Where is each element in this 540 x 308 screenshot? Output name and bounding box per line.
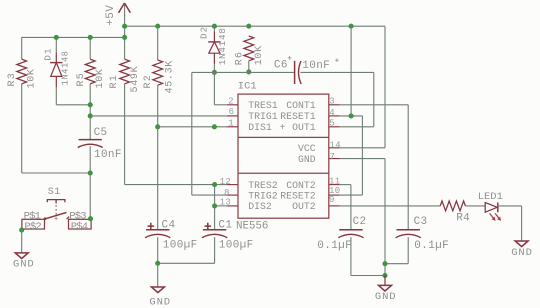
node R2/DIS1/C4 — [155, 124, 160, 129]
wire TRIG2 drop — [191, 72, 193, 195]
IC1 right pin numbers — [329, 96, 341, 204]
svg-text:10nF: 10nF — [302, 60, 330, 72]
svg-text:11: 11 — [329, 176, 341, 186]
svg-text:1N4148: 1N4148 — [217, 27, 228, 65]
wire CONT2 net — [340, 184, 351, 186]
svg-text:R1: R1 — [109, 74, 120, 88]
capacitor C5 10nF — [78, 127, 122, 161]
wire D1 to R5/C5 node — [56, 104, 90, 106]
wire GND column — [384, 159, 386, 276]
svg-text:C1: C1 — [218, 219, 232, 231]
svg-text:12: 12 — [220, 177, 232, 187]
wire C6 right — [300, 71, 373, 73]
node rail-R6 — [246, 24, 251, 29]
svg-text:6: 6 — [229, 107, 235, 117]
wire VCC net — [340, 147, 385, 149]
svg-text:LED1: LED1 — [478, 191, 503, 203]
node mid ground junction — [155, 261, 160, 266]
svg-text:100µF: 100µF — [163, 240, 198, 252]
IC1 left pin numbers — [220, 96, 235, 207]
wire C5 bottom — [89, 146, 91, 219]
svg-text:C6: C6 — [274, 59, 288, 71]
svg-text:DIS2: DIS2 — [248, 201, 272, 212]
wire R5 top lead — [89, 37, 91, 59]
svg-text:TRES2: TRES2 — [248, 180, 278, 191]
svg-text:R4: R4 — [456, 213, 470, 225]
svg-text:D1: D1 — [42, 48, 53, 61]
ground mid — [149, 287, 171, 308]
node TRIG1 tap — [88, 113, 93, 118]
wire rail to VCC column — [384, 26, 386, 148]
svg-text:5: 5 — [329, 119, 335, 129]
resistor R5 — [76, 59, 106, 88]
wire R4 to LED — [465, 205, 485, 207]
svg-text:10K: 10K — [26, 68, 37, 88]
wire +5V stem — [124, 5, 126, 27]
diode D1 bottom pin — [55, 76, 57, 87]
wire DIS1 net — [158, 126, 228, 128]
svg-text:4: 4 — [329, 108, 335, 118]
IC1 pin labels gate 2 — [248, 180, 316, 212]
switch S1 — [22, 187, 91, 233]
wire R6 bottom lead — [248, 61, 250, 72]
svg-text:P$2: P$2 — [24, 221, 41, 233]
svg-text:C4: C4 — [162, 219, 176, 231]
wire R1 to TRES2 row — [125, 184, 228, 186]
svg-text:45.3K: 45.3K — [165, 60, 176, 94]
node rail-D2 — [212, 24, 217, 29]
IC1 right pin stubs (pins 3,4,5,14,7,11,10,9) — [329, 105, 340, 206]
node RESET junction — [349, 113, 354, 118]
wire C2 bottom — [350, 237, 352, 275]
wire OUT1 net — [340, 126, 374, 128]
ground left — [13, 253, 35, 270]
capacitor C2 0.1uF — [317, 216, 366, 252]
resistor R6 — [234, 36, 265, 65]
svg-text:0.1µF: 0.1µF — [414, 240, 449, 252]
wire RESET2 into pin — [340, 194, 363, 196]
wire C3 bottom — [407, 237, 409, 264]
wire C4 bottom — [157, 237, 159, 263]
wire mid gnd stub — [157, 263, 159, 287]
svg-text:+: + — [280, 122, 286, 133]
wire TRIG1 net — [90, 115, 227, 117]
+5V supply symbol — [105, 3, 130, 26]
svg-text:9: 9 — [329, 195, 335, 205]
wire R2 top lead — [157, 26, 159, 60]
diode D2 1N4148 — [198, 26, 228, 65]
node rail-D1 — [54, 35, 59, 40]
op-amp U1 / timer IC1 NE556 body — [236, 80, 329, 232]
wire TRES1 net — [214, 104, 227, 106]
diode D2 bottom pin — [213, 53, 215, 64]
wire D2 bottom lead — [213, 64, 215, 73]
svg-text:1: 1 — [228, 119, 234, 129]
svg-text:3: 3 — [329, 96, 335, 106]
svg-text:1N4148: 1N4148 — [61, 51, 71, 86]
svg-text:TRES1: TRES1 — [248, 100, 278, 111]
capacitor C3 0.1uF — [396, 216, 449, 252]
svg-text:549K: 549K — [130, 66, 141, 93]
svg-text:10K: 10K — [254, 45, 265, 65]
wire left rail (+5V to R3/D1/R5) — [22, 36, 125, 38]
resistor R4 — [440, 201, 470, 225]
node rail-RESET drop — [349, 24, 354, 29]
svg-text:GND: GND — [375, 291, 397, 303]
wire R3 to C5 node — [22, 172, 91, 174]
svg-text:R2: R2 — [143, 74, 154, 88]
wire D2 top lead — [213, 26, 215, 31]
wire D1 bottom lead — [55, 87, 57, 105]
wire discharge rail — [192, 71, 295, 73]
node DIS1 corner junction — [212, 124, 217, 129]
node C5/R3/S1 junction — [88, 170, 93, 175]
wire C3 to gnd column — [385, 263, 408, 265]
wire LED gnd drop — [521, 206, 523, 241]
svg-text:R5: R5 — [76, 72, 87, 86]
wire C2 to gnd column — [351, 275, 385, 277]
svg-text:CONT1: CONT1 — [286, 100, 316, 111]
svg-text:10nF: 10nF — [94, 149, 122, 161]
wire C6 to OUT1 drop — [373, 72, 375, 126]
wire R1 bottom lead — [124, 84, 126, 185]
ground right-middle — [375, 276, 397, 304]
svg-text:IC1: IC1 — [238, 80, 257, 92]
svg-text:7: 7 — [330, 152, 336, 162]
svg-text:RESET1: RESET1 — [280, 111, 315, 122]
node S1 left to ground — [19, 228, 24, 233]
wire OUT2 net — [340, 205, 441, 207]
IC1 power pin labels — [298, 143, 316, 165]
svg-text:10K: 10K — [95, 68, 106, 88]
wire +5V column to R1 — [124, 26, 126, 59]
node rail-R2 — [155, 24, 160, 29]
wire C2 column — [350, 185, 352, 230]
IC1 pin labels gate 1 — [248, 100, 316, 133]
wire D2 to TRES1 corner — [213, 72, 215, 104]
capacitor C6 10nF — [274, 56, 339, 84]
wire S1 left down — [21, 230, 23, 253]
svg-text:GND: GND — [298, 154, 316, 165]
wire R3 top lead — [21, 37, 23, 59]
svg-text:TRIG1: TRIG1 — [248, 111, 278, 122]
resistor R1 — [109, 59, 141, 92]
resistor R2 — [143, 60, 176, 94]
svg-text:C2: C2 — [353, 216, 367, 228]
node +5V rail junction — [122, 24, 127, 29]
node D2/discharge rail — [212, 70, 217, 75]
svg-text:S1: S1 — [48, 187, 61, 198]
node R6 bottom — [246, 69, 251, 74]
svg-text:RESET2: RESET2 — [280, 190, 315, 201]
svg-text:C3: C3 — [414, 216, 428, 228]
diode D1 1N4148 — [42, 48, 70, 86]
svg-text:TRIG2: TRIG2 — [248, 190, 278, 201]
svg-text:100µF: 100µF — [219, 240, 254, 252]
wire R3 bottom lead — [21, 84, 23, 173]
svg-text:OUT2: OUT2 — [292, 201, 316, 212]
wire R2 bottom lead — [157, 85, 159, 127]
wire C4 column — [157, 127, 159, 230]
svg-text:2: 2 — [228, 96, 234, 106]
ground far right — [511, 241, 533, 259]
resistor R3 — [7, 59, 37, 88]
wire C1 bottom — [214, 237, 216, 263]
svg-text:GND: GND — [149, 296, 171, 308]
wire GND pin net — [340, 158, 385, 160]
svg-text:DIS1: DIS1 — [248, 122, 272, 133]
wire C1 to C4 gnd link — [158, 262, 215, 264]
svg-text:+5V: +5V — [105, 5, 117, 26]
svg-text:OUT1: OUT1 — [292, 122, 316, 133]
svg-text:R3: R3 — [7, 72, 18, 86]
svg-text:P$4: P$4 — [71, 221, 88, 233]
diode D1 top pin — [55, 52, 57, 62]
capacitor C1 100uF — [202, 219, 254, 251]
node rail-R5 — [88, 35, 93, 40]
wire RESET drop from rail — [350, 26, 352, 116]
svg-text:VCC: VCC — [298, 143, 316, 154]
LED LED1 — [478, 191, 503, 221]
wire R5 to C5 — [89, 84, 91, 139]
capacitor C4 100uF — [145, 219, 197, 251]
wire DIS2 into pin — [215, 205, 228, 207]
wire C3 column — [407, 105, 409, 230]
diode D2 top pin — [213, 31, 215, 42]
wire RESET1 net — [340, 115, 363, 117]
svg-text:C5: C5 — [94, 127, 108, 139]
wire top rail A (+5V horizontal) — [125, 25, 385, 27]
svg-text:GND: GND — [13, 258, 35, 270]
svg-text:14: 14 — [330, 140, 342, 150]
wire D1 top lead — [55, 37, 57, 52]
svg-text:GND: GND — [511, 247, 533, 259]
svg-text:0.1µF: 0.1µF — [317, 240, 352, 252]
node TRES2 junction — [212, 182, 217, 187]
svg-text:R6: R6 — [234, 51, 245, 65]
node R5/D1 junction — [88, 102, 93, 107]
wire RESET1-RESET2 link — [361, 116, 363, 195]
wire TRES2-DIS2 link — [214, 185, 216, 230]
svg-text:CONT2: CONT2 — [286, 180, 316, 191]
wire TRIG2 into pin — [192, 194, 228, 196]
IC1 left pin stubs (pins 2,6,1,12,8,13) — [227, 105, 238, 206]
node gnd column lower — [382, 273, 387, 278]
node left rail junction — [122, 35, 127, 40]
node DIS2 junction — [212, 203, 217, 208]
node S1 right to C5 net — [88, 216, 93, 221]
node gnd column upper — [382, 261, 387, 266]
svg-text:NE556: NE556 — [236, 221, 268, 233]
wire CONT1 net — [340, 104, 409, 106]
wire LED cathode — [498, 205, 522, 207]
svg-text:D2: D2 — [198, 26, 209, 39]
